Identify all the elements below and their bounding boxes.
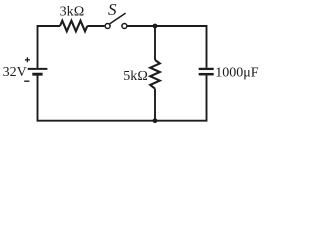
wire: 5k branch upper lead — [154, 26, 156, 60]
svg-text:S: S — [108, 0, 117, 19]
capacitor C1 bottom plate — [199, 73, 214, 76]
svg-text:3kΩ: 3kΩ — [60, 4, 85, 19]
svg-text:5kΩ: 5kΩ — [123, 69, 148, 84]
resistor R1 3kOhm — [60, 21, 87, 32]
wire: 5k branch lower lead — [154, 89, 156, 121]
switch S right contact circle — [122, 24, 127, 29]
capacitor C1 top plate — [199, 68, 214, 70]
wire: top-left horizontal to 3k resistor — [37, 25, 60, 27]
battery V1 long (+) plate — [28, 68, 48, 70]
resistor R2 5kOhm — [150, 60, 160, 89]
junction node dot (top, 5k branch) — [153, 24, 158, 29]
wire: capacitor bottom plate down to bottom-right corner and left to 5k node — [155, 75, 207, 120]
label: battery + polarity mark — [25, 57, 30, 62]
wire: left branch upper (battery + terminal up to top-left corner) — [37, 26, 39, 68]
wire: top node to top-right corner down to capacitor top plate — [155, 26, 207, 68]
wire: bottom node to bottom-left corner up to battery - terminal — [38, 75, 156, 120]
svg-text:32V: 32V — [3, 65, 27, 80]
junction node dot (bottom, 5k branch) — [153, 118, 158, 123]
wire: switch right terminal to node at 5k branch — [127, 25, 155, 27]
switch S left contact circle — [105, 24, 110, 29]
battery V1 short (-) plate — [32, 73, 42, 76]
switch S blade (open) — [110, 13, 126, 24]
wire: 3k resistor to switch left terminal — [87, 25, 104, 27]
svg-text:1000μF: 1000μF — [215, 65, 259, 80]
label: battery - polarity mark — [24, 80, 29, 82]
